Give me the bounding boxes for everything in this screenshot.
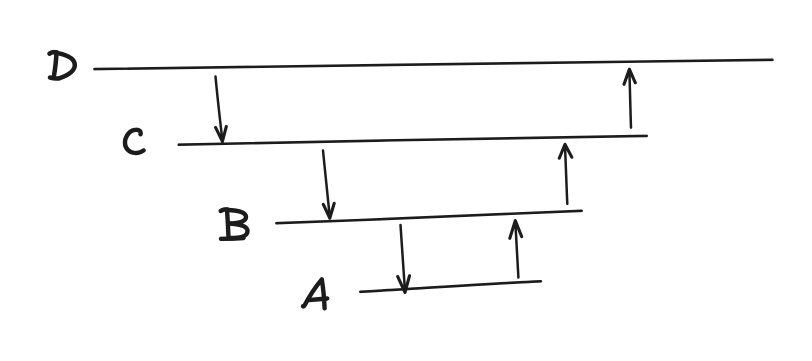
arrow B to A head xyxy=(398,276,410,293)
line C xyxy=(179,136,647,145)
arrow B to C shaft xyxy=(565,146,567,204)
arrow C to B shaft xyxy=(323,151,330,218)
arrow A to B head xyxy=(510,221,522,239)
arrow C to B head xyxy=(323,203,334,218)
line A xyxy=(360,281,541,292)
label A xyxy=(303,279,327,308)
label C xyxy=(125,130,144,153)
label D xyxy=(50,52,75,78)
arrow C to D head xyxy=(624,69,635,84)
arrow D to C shaft xyxy=(216,77,223,141)
line B xyxy=(276,211,581,223)
arrow A to B shaft xyxy=(515,222,518,278)
line D xyxy=(95,60,773,69)
label B xyxy=(221,209,248,238)
arrow D to C head xyxy=(216,127,227,142)
arrow C to D shaft xyxy=(629,71,631,128)
arrow B to A shaft xyxy=(401,225,406,292)
arrow B to C head xyxy=(559,144,572,158)
